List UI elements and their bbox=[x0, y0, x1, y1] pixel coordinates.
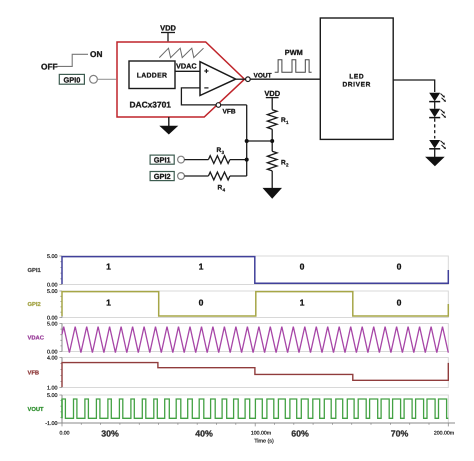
svg-text:VOUT: VOUT bbox=[254, 72, 272, 79]
svg-text:VDD: VDD bbox=[264, 89, 280, 98]
trace VOUT PWM bbox=[62, 399, 448, 418]
svg-text:VDD: VDD bbox=[160, 24, 176, 33]
LED D3 bbox=[429, 140, 446, 149]
wire VFB node to divider bbox=[247, 140, 273, 142]
svg-text:2: 2 bbox=[286, 163, 289, 168]
svg-text:1: 1 bbox=[300, 297, 305, 307]
x axis bbox=[56, 422, 455, 424]
wire GPI0 to DAC bbox=[97, 78, 116, 80]
svg-text:LED: LED bbox=[349, 73, 364, 80]
GPI2 terminal bbox=[150, 172, 174, 181]
trace GPI2 bbox=[62, 292, 448, 316]
wire R3 to node bbox=[230, 159, 247, 161]
ground (R2) bbox=[263, 188, 283, 199]
svg-text:GPI1: GPI1 bbox=[154, 156, 171, 165]
svg-text:VDAC: VDAC bbox=[28, 334, 45, 341]
panel GPI1 bbox=[28, 254, 449, 289]
wire R2 to ground bbox=[271, 171, 273, 188]
resistor R1 bbox=[267, 110, 277, 130]
svg-text:5.00: 5.00 bbox=[47, 322, 58, 328]
VDD symbol (DAC) bbox=[161, 33, 175, 42]
svg-text:60%: 60% bbox=[291, 429, 309, 439]
svg-text:VFB: VFB bbox=[223, 108, 236, 115]
svg-text:0: 0 bbox=[300, 262, 305, 272]
svg-text:5.00: 5.00 bbox=[47, 393, 58, 399]
GPI1 terminal bbox=[150, 155, 174, 164]
svg-text:5.00: 5.00 bbox=[47, 289, 58, 295]
dashed wire bbox=[434, 119, 436, 139]
svg-text:VOUT: VOUT bbox=[28, 406, 45, 413]
LED D2 bbox=[429, 109, 446, 118]
resistor R4 bbox=[208, 172, 230, 180]
wire node VDAC bbox=[175, 70, 200, 72]
svg-text:200.00m: 200.00m bbox=[434, 431, 454, 437]
node R1/R2 junction bbox=[270, 139, 274, 143]
svg-text:5.00: 5.00 bbox=[47, 254, 58, 260]
svg-text:0.00: 0.00 bbox=[47, 283, 58, 289]
wire LED driver output bbox=[393, 80, 435, 92]
svg-text:70%: 70% bbox=[391, 429, 409, 439]
node R3/R4 junction bbox=[245, 158, 249, 162]
switch waveform OFF/ON bbox=[56, 54, 88, 66]
trace VFB bbox=[62, 363, 448, 387]
svg-text:1: 1 bbox=[106, 297, 111, 307]
svg-text:GPI0: GPI0 bbox=[63, 76, 80, 85]
LADDER block bbox=[129, 61, 175, 89]
svg-text:PWM: PWM bbox=[285, 48, 303, 57]
panel VDAC bbox=[28, 322, 449, 356]
svg-text:0: 0 bbox=[199, 297, 204, 307]
svg-text:4: 4 bbox=[223, 188, 226, 193]
svg-text:1: 1 bbox=[106, 262, 111, 272]
panel VOUT bbox=[28, 393, 449, 427]
svg-text:0: 0 bbox=[397, 262, 402, 272]
DAC block outline DACx3701 bbox=[117, 42, 245, 117]
node VOUT bbox=[246, 77, 251, 82]
svg-text:1.00: 1.00 bbox=[47, 386, 58, 392]
VOUT left edge bbox=[61, 399, 63, 418]
wire R1 to node bbox=[271, 129, 273, 151]
wire bbox=[434, 149, 436, 157]
svg-text:OFF: OFF bbox=[41, 62, 58, 72]
trace GPI1 bbox=[62, 257, 448, 284]
op-amp U1 bbox=[200, 62, 236, 96]
svg-text:GPI2: GPI2 bbox=[28, 301, 41, 308]
panel GPI2 bbox=[28, 289, 449, 322]
wire GPI2 to R4 bbox=[184, 175, 208, 177]
svg-text:3: 3 bbox=[222, 150, 225, 155]
svg-text:Time (s): Time (s) bbox=[254, 439, 274, 445]
ground (LED string) bbox=[425, 157, 445, 167]
wire R4 to node bbox=[230, 175, 247, 177]
node VFB bbox=[216, 103, 221, 108]
feedback wire bbox=[181, 88, 246, 105]
svg-text:DACx3701: DACx3701 bbox=[130, 99, 172, 109]
svg-text:VDAC: VDAC bbox=[176, 62, 197, 71]
resistor R3 bbox=[208, 156, 230, 164]
LED driver block bbox=[320, 18, 393, 139]
svg-text:LADDER: LADDER bbox=[137, 73, 168, 80]
wire GPI1 to R3 bbox=[184, 159, 208, 161]
svg-text:-1.00: -1.00 bbox=[45, 421, 57, 427]
svg-text:4.00: 4.00 bbox=[47, 356, 58, 362]
wire VOUT to LED driver bbox=[250, 78, 320, 80]
svg-text:VFB: VFB bbox=[28, 370, 40, 376]
LED D1 bbox=[429, 93, 446, 102]
svg-text:ON: ON bbox=[90, 49, 102, 59]
wire op-amp output to VOUT node bbox=[236, 78, 246, 80]
svg-text:GPI1: GPI1 bbox=[28, 267, 42, 274]
trace VDAC triangle wave bbox=[62, 327, 448, 353]
svg-text:GPI2: GPI2 bbox=[154, 172, 171, 181]
svg-text:40%: 40% bbox=[195, 429, 213, 439]
sawtooth waveform symbol bbox=[159, 48, 203, 57]
svg-text:1: 1 bbox=[286, 120, 289, 125]
ground (DAC) bbox=[168, 117, 170, 126]
svg-text:30%: 30% bbox=[101, 429, 119, 439]
panel VFB bbox=[28, 356, 449, 392]
GPI0 terminal bbox=[59, 74, 84, 84]
wire bbox=[434, 102, 436, 109]
wire VFB node down to divider bbox=[246, 105, 248, 176]
svg-text:0.00: 0.00 bbox=[59, 431, 69, 437]
svg-text:0: 0 bbox=[397, 297, 402, 307]
resistor R2 bbox=[267, 151, 277, 171]
svg-text:100.00m: 100.00m bbox=[251, 431, 271, 437]
svg-text:1: 1 bbox=[199, 262, 204, 272]
svg-text:DRIVER: DRIVER bbox=[342, 82, 371, 89]
